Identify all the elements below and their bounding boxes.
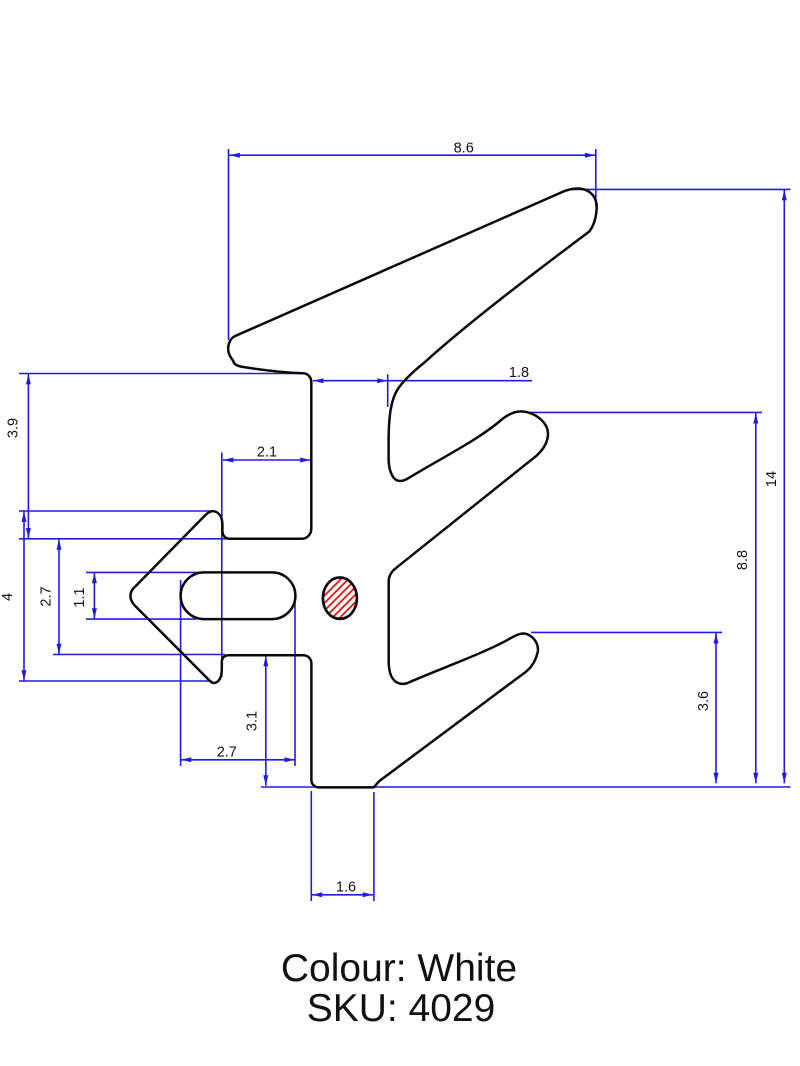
svg-text:1.6: 1.6 [336, 880, 356, 896]
extension line y=654.5 neck bottom [53, 654, 225, 656]
svg-text:2.7: 2.7 [39, 586, 55, 606]
dimension line 2.7 bottom [181, 759, 295, 761]
arrow 2.1 left [223, 458, 233, 463]
dimension line 1.1 [93, 573, 95, 619]
arrow 2.7left top [57, 539, 62, 549]
extension line y=412.4 upper right fin tip [528, 411, 762, 413]
arrow 14 bottom [782, 773, 787, 783]
dimension line 3.9 [27, 374, 29, 539]
dimension line 8.6 [229, 154, 595, 156]
svg-text:3.1: 3.1 [245, 711, 261, 731]
extension line x=221.8 barb right edge [221, 453, 223, 678]
dimension texts [0, 140, 780, 895]
extension line y=538.8 neck top [19, 538, 230, 540]
svg-text:8.8: 8.8 [735, 550, 751, 570]
extension line y=373.5 left step top [19, 149, 791, 901]
extension line x=180.6 slot left [180, 580, 182, 766]
extension line x=311.3 foot left [310, 791, 312, 901]
profile outline [130, 188, 596, 787]
arrow 3.9 top [26, 374, 31, 384]
svg-text:1.8: 1.8 [509, 365, 529, 381]
svg-text:2.1: 2.1 [257, 445, 277, 461]
extension line y=572.4 slot top [86, 571, 203, 573]
arrow 3.9 bottom [26, 528, 31, 538]
arrow 1.1 bottom [92, 608, 97, 618]
dimension line 14 [783, 190, 785, 784]
arrow 4 top [22, 512, 27, 522]
extension line x=373.9 foot right [373, 792, 375, 901]
arrow 3.6 bottom [714, 773, 719, 783]
arrow 1.6 left [312, 892, 322, 897]
extension line y=787 profile bottom [261, 786, 791, 788]
extension line y=619.1 slot bottom [86, 618, 196, 620]
arrow 2.7bottom right [285, 757, 295, 762]
extension line x=228.5 fin left tip [228, 149, 230, 340]
arrow 14 top [782, 190, 787, 200]
arrow 2.7bottom left [181, 757, 191, 762]
arrow 8.6 right [585, 153, 595, 158]
arrow 1.1 top [92, 573, 97, 583]
arrow 1.8 left [313, 378, 323, 383]
svg-text:14: 14 [764, 471, 780, 487]
arrow 2.7left bottom [57, 644, 62, 654]
extension line y=681 arrow bottom tip [19, 680, 209, 682]
arrow 3.1 bottom [263, 775, 268, 785]
extension line x=595.8 fin right tip [595, 149, 597, 206]
dimension line 2.1 [223, 459, 311, 461]
arrow 8.8 top [753, 413, 758, 423]
extension line y=189.4 top fin tip [570, 188, 791, 190]
svg-text:3.9: 3.9 [6, 418, 22, 438]
extension line x=295 slot right [294, 600, 296, 766]
extension line y=632.4 lower right fin tip [531, 631, 722, 633]
arrow 1.6 right [363, 892, 373, 897]
svg-text:2.7: 2.7 [217, 745, 237, 761]
svg-text:4: 4 [0, 593, 16, 601]
arrow 4 bottom [22, 670, 27, 680]
dimension line 1.6 [312, 894, 373, 896]
svg-text:1.1: 1.1 [72, 587, 88, 607]
slot stadium [181, 572, 296, 619]
svg-text:3.6: 3.6 [696, 691, 712, 711]
svg-text:Colour: White: Colour: White [281, 947, 517, 990]
dimension line 3.1 [265, 656, 267, 786]
extension line x=387.7 spine right waist [387, 374, 389, 407]
arrow 8.8 bottom [753, 773, 758, 783]
arrow 3.1 top [263, 656, 268, 666]
arrowheads [22, 153, 787, 898]
dimension line 8.8 [755, 413, 757, 783]
dimension line 2.7 left [58, 539, 60, 654]
dimension line 4 [23, 511, 25, 680]
hatched bore [300, 540, 380, 695]
svg-text:8.6: 8.6 [454, 140, 474, 156]
svg-text:SKU: 4029: SKU: 4029 [307, 987, 496, 1030]
dimension line 1.8 [313, 380, 532, 382]
arrow 3.6 top [714, 633, 719, 643]
arrow 8.6 left [230, 153, 240, 158]
dimension line 3.6 [715, 633, 717, 783]
arrow 1.8 right [377, 378, 387, 383]
arrow 2.1 right [300, 458, 310, 463]
extension line y=511 barb peak [19, 510, 211, 512]
